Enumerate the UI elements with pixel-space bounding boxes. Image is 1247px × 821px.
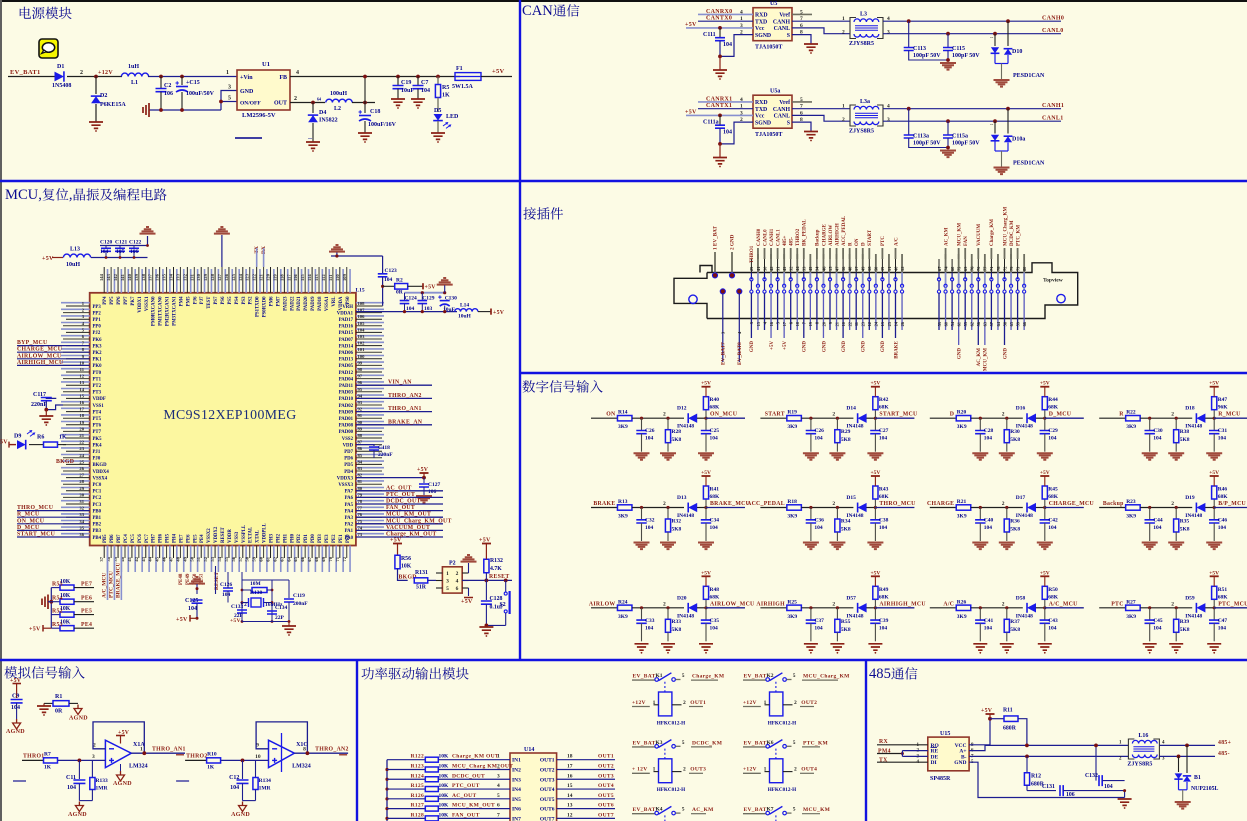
svg-text:485-: 485- <box>790 237 795 247</box>
svg-text:8: 8 <box>303 747 306 753</box>
P2 pin6 to +5V <box>468 588 470 596</box>
svg-text:Vcc: Vcc <box>755 26 765 32</box>
junction 3 <box>866 417 875 419</box>
power +5V R50 <box>1040 575 1049 577</box>
svg-text:PM4: PM4 <box>179 296 184 306</box>
svg-text:PB6: PB6 <box>110 534 115 543</box>
svg-text:LM2596-5V: LM2596-5V <box>242 112 276 119</box>
svg-text:1uH: 1uH <box>128 64 139 70</box>
svg-text:+12V: +12V <box>743 700 757 706</box>
wire 485- out <box>1159 755 1215 757</box>
svg-text:PAD16: PAD16 <box>339 325 354 330</box>
svg-text:85: 85 <box>358 453 363 458</box>
svg-text:104: 104 <box>1153 625 1162 631</box>
svg-text:VSS2: VSS2 <box>342 437 354 442</box>
svg-text:102: 102 <box>358 341 366 346</box>
svg-text:C43: C43 <box>1048 618 1058 624</box>
VRH filter: mound ground <box>329 245 345 252</box>
svg-text:D10: D10 <box>1012 49 1022 55</box>
capacitor C134 22P <box>267 611 277 614</box>
wire to diode <box>971 507 1023 509</box>
svg-text:U15: U15 <box>940 731 950 737</box>
+5V cap rail <box>405 292 445 294</box>
pin column 76/62 <box>971 254 973 273</box>
IC U15 SP485R <box>928 737 969 771</box>
svg-text:104: 104 <box>710 525 719 531</box>
junction C2 <box>159 75 163 79</box>
svg-text:PM7: PM7 <box>276 296 281 306</box>
svg-text:+12V: +12V <box>632 700 646 706</box>
svg-text:1: 1 <box>740 104 743 110</box>
diode D59 IN4148 <box>1196 603 1205 612</box>
svg-text:14: 14 <box>567 793 573 799</box>
svg-text:PAD19: PAD19 <box>311 296 316 311</box>
TVS D10a PESD1CAN <box>993 119 997 123</box>
svg-text:C29: C29 <box>1048 428 1058 434</box>
svg-text:68K: 68K <box>879 494 890 500</box>
switch S2 <box>505 580 507 592</box>
svg-text:25: 25 <box>79 459 84 464</box>
wire bus to resistor R127 <box>387 808 425 810</box>
svg-text:104: 104 <box>1048 525 1057 531</box>
capacitor C40 104 <box>979 508 981 520</box>
svg-text:79: 79 <box>358 492 363 497</box>
svg-text:R22: R22 <box>1126 410 1136 416</box>
svg-text:PS4: PS4 <box>235 296 240 305</box>
capacitor C111a 104 <box>719 115 721 125</box>
svg-text:220nF: 220nF <box>378 452 393 458</box>
MCU left pins 1-36 <box>66 305 90 307</box>
junction 3 <box>1205 507 1214 509</box>
svg-text:PB5: PB5 <box>103 534 108 543</box>
crystal Y2 16MHz <box>242 602 248 604</box>
svg-text:START: START <box>765 412 785 418</box>
svg-text:C32: C32 <box>645 518 655 524</box>
capacitor C28 104 <box>979 418 981 430</box>
svg-text:R124: R124 <box>411 773 424 779</box>
svg-text:AIRLOW: AIRLOW <box>589 601 616 607</box>
power +5V R41 <box>702 475 711 477</box>
svg-text:75: 75 <box>358 519 363 524</box>
svg-text:104: 104 <box>723 130 732 136</box>
wire to diode <box>1140 507 1192 509</box>
capacitor C26 104 <box>641 418 643 430</box>
svg-text:2: 2 <box>663 412 666 418</box>
pin 8 S to ground <box>792 122 811 131</box>
svg-text:CAN: CAN <box>522 3 553 19</box>
wire CANRX1 <box>698 101 753 103</box>
svg-text:PT5: PT5 <box>93 417 102 422</box>
svg-text:3: 3 <box>228 85 231 91</box>
capacitor C117 220nF <box>46 397 56 398</box>
svg-text:12: 12 <box>79 374 84 379</box>
svg-text:+5V: +5V <box>29 627 41 633</box>
resistor R39 5K8 <box>1175 608 1177 620</box>
tiny text mark <box>176 780 189 782</box>
resistor R35 5K8 <box>1175 508 1177 520</box>
svg-text:2: 2 <box>794 700 797 706</box>
svg-text:R11: R11 <box>1003 708 1013 714</box>
svg-text:2: 2 <box>740 117 743 123</box>
wire bus to resistor R126 <box>387 798 425 800</box>
pin column 39/13 <box>881 259 883 273</box>
svg-text:D20: D20 <box>677 595 687 601</box>
svg-text:HFKC012-H: HFKC012-H <box>657 787 686 793</box>
resistor R2 0R <box>383 285 395 287</box>
wire output CHARGE_MCU <box>1045 507 1084 509</box>
svg-text:6: 6 <box>800 110 803 116</box>
resistor R30 5K8 <box>1006 418 1008 430</box>
svg-text:PP6: PP6 <box>117 296 122 305</box>
svg-text:BKGD: BKGD <box>56 459 74 465</box>
svg-text:55: 55 <box>224 556 229 561</box>
svg-text:C42: C42 <box>1048 518 1058 524</box>
svg-text:26: 26 <box>79 466 84 471</box>
svg-text:C2: C2 <box>164 83 171 89</box>
svg-text:77: 77 <box>358 506 363 511</box>
svg-text:PC6: PC6 <box>138 534 143 543</box>
svg-text:R40: R40 <box>710 397 720 403</box>
wire TVS to ground <box>1001 151 1003 167</box>
svg-text:PC3: PC3 <box>93 503 102 508</box>
svg-text:+5V: +5V <box>1040 470 1050 476</box>
wire GND pin5 <box>969 762 1125 797</box>
svg-text:485+: 485+ <box>1218 740 1231 746</box>
svg-text:PS0: PS0 <box>346 296 351 305</box>
svg-text:R18: R18 <box>787 499 797 505</box>
power +5V R2 <box>408 285 423 287</box>
svg-text:PAD03: PAD03 <box>339 391 354 396</box>
wire to IN5 <box>439 798 511 800</box>
svg-text:104: 104 <box>1104 784 1113 790</box>
wire +5V to Vcc <box>686 27 753 29</box>
svg-text:R126: R126 <box>411 793 424 799</box>
diode D20 IN4148 <box>688 603 697 612</box>
wire ON/OFF GND loop <box>221 91 237 111</box>
svg-text:IN4: IN4 <box>512 787 521 793</box>
power +5V R40 <box>702 386 711 388</box>
junction 3 <box>1036 507 1045 509</box>
svg-text:EXTAL: EXTAL <box>249 527 254 543</box>
wire output B/P_MCU <box>1214 507 1247 509</box>
svg-text:7: 7 <box>800 16 803 22</box>
wire EV_BAT1 to D1 <box>8 76 56 78</box>
capacitor C132 104 <box>1095 745 1097 780</box>
svg-text:69: 69 <box>321 556 326 561</box>
svg-text:IN6: IN6 <box>512 807 521 813</box>
svg-text:OUT2: OUT2 <box>598 763 614 769</box>
capacitor C38 104 <box>874 508 876 520</box>
svg-text:4: 4 <box>740 9 743 15</box>
wire output THRO_AN2 <box>294 752 348 754</box>
svg-text:VSSX2: VSSX2 <box>207 528 212 543</box>
svg-text:117: 117 <box>286 274 291 281</box>
svg-text:97: 97 <box>358 374 363 379</box>
svg-text:PD5: PD5 <box>344 463 353 468</box>
pin column 69/55 <box>964 259 966 273</box>
power +5V R48 <box>702 575 711 577</box>
svg-text:104: 104 <box>1153 525 1162 531</box>
svg-text:10uF: 10uF <box>401 88 414 94</box>
svg-text:HFKC012-H: HFKC012-H <box>768 720 797 726</box>
svg-text:143: 143 <box>106 273 111 281</box>
svg-text:VDDA: VDDA <box>339 296 344 310</box>
svg-text:CHARGE_MCU: CHARGE_MCU <box>17 347 63 353</box>
svg-text:AIRLOW: AIRLOW <box>829 225 834 246</box>
svg-text:115: 115 <box>300 274 305 281</box>
svg-text:68K: 68K <box>1048 494 1059 500</box>
riser to ground mound <box>147 236 149 246</box>
svg-text:TXD: TXD <box>755 107 767 113</box>
svg-text:THRO2: THRO2 <box>796 228 801 246</box>
ground under C34 <box>698 543 714 550</box>
svg-text:R20: R20 <box>957 410 967 416</box>
junction C7 <box>416 75 420 79</box>
svg-text:L3: L3 <box>860 12 867 18</box>
pullup R43 68K <box>874 500 876 508</box>
wire input to R10 <box>185 759 206 761</box>
svg-text:PH1: PH1 <box>283 533 288 543</box>
svg-text:PTC_KM: PTC_KM <box>1016 225 1021 246</box>
svg-text:R50: R50 <box>1048 587 1058 593</box>
svg-text:141: 141 <box>120 273 125 281</box>
svg-text:+5V: +5V <box>1040 570 1050 576</box>
wire input <box>1099 607 1126 609</box>
svg-text:113: 113 <box>314 274 319 281</box>
svg-text:2: 2 <box>842 117 845 123</box>
capacitor C35 104 <box>705 608 707 620</box>
MCU right pins 108-73 <box>356 305 382 307</box>
svg-text:C34: C34 <box>710 518 720 524</box>
ground under D10 <box>994 80 1010 87</box>
svg-text:82: 82 <box>358 473 363 478</box>
svg-text:220nF: 220nF <box>31 402 47 408</box>
pin 3 choke out CANL <box>883 120 1061 122</box>
svg-text:PAD17: PAD17 <box>339 318 354 323</box>
junction <box>809 506 812 509</box>
svg-text:104: 104 <box>1218 625 1227 631</box>
resistor R122 10K <box>425 757 438 762</box>
driver IC U14 <box>510 753 557 821</box>
ground under R29 <box>829 453 845 460</box>
wire OUT5 <box>557 798 615 800</box>
svg-text:41: 41 <box>756 267 761 271</box>
wire to diode <box>801 607 853 609</box>
svg-text:12: 12 <box>567 812 573 818</box>
svg-text:71: 71 <box>335 556 340 561</box>
svg-text:PE5: PE5 <box>193 534 198 543</box>
svg-text:CANH0: CANH0 <box>757 228 762 246</box>
svg-text:PK1: PK1 <box>93 358 103 363</box>
ground under R35 <box>1168 543 1184 550</box>
svg-text:R125: R125 <box>411 783 424 789</box>
wire to diode <box>632 507 684 509</box>
capacitor C19 10uF <box>397 77 399 86</box>
pin 6 CANL wire <box>792 115 850 121</box>
ground under R28 <box>660 453 676 460</box>
svg-text:PB4: PB4 <box>93 536 102 541</box>
capacitor C29 104 <box>1044 418 1046 430</box>
junction C111b top <box>718 114 722 118</box>
junction 2 <box>836 506 839 509</box>
svg-text:111: 111 <box>328 274 333 281</box>
pin 3 choke out CANL <box>883 33 1061 35</box>
svg-text:104: 104 <box>879 436 888 442</box>
svg-text:PC0: PC0 <box>93 483 102 488</box>
capacitor C26 104 <box>810 418 812 430</box>
svg-text:58: 58 <box>245 556 250 561</box>
wire OUT7 <box>557 817 615 819</box>
svg-text:D_MCU: D_MCU <box>17 525 40 531</box>
capacitor C113 100pF <box>908 21 910 47</box>
wire output A/C_MCU <box>1045 607 1084 609</box>
svg-text:PD0: PD0 <box>311 534 316 543</box>
svg-text:104: 104 <box>421 88 430 94</box>
inductor L2 100uH <box>326 99 352 102</box>
pin column 68/54 <box>951 259 953 273</box>
svg-text:2: 2 <box>456 571 459 577</box>
svg-text:6: 6 <box>456 586 459 592</box>
svg-text:D_MCU: D_MCU <box>1049 412 1072 418</box>
svg-text:68K: 68K <box>710 494 721 500</box>
ground under C32 <box>634 543 650 550</box>
junction C111 top <box>718 26 722 30</box>
svg-text:5K8: 5K8 <box>841 437 851 443</box>
capacitor C30 104 <box>1149 418 1151 430</box>
svg-text:+5V: +5V <box>1040 381 1050 387</box>
svg-text:AIRHIGH_MCU: AIRHIGH_MCU <box>17 360 64 366</box>
svg-text:1K: 1K <box>59 435 67 441</box>
svg-text:68K: 68K <box>710 405 721 411</box>
svg-text:3: 3 <box>740 110 743 116</box>
power +5V reset <box>190 617 197 619</box>
svg-text:C129: C129 <box>422 295 434 301</box>
wire to + input <box>58 759 105 761</box>
svg-text:EV_BAT1: EV_BAT1 <box>10 69 41 76</box>
wire C111 to ground <box>719 144 721 158</box>
svg-text:R44: R44 <box>1048 397 1058 403</box>
svg-text:50: 50 <box>189 556 194 561</box>
svg-text:OUT1: OUT1 <box>598 754 614 760</box>
svg-text:121: 121 <box>259 273 264 281</box>
svg-text:IN4148: IN4148 <box>1016 424 1033 430</box>
svg-text:AIRHIGH: AIRHIGH <box>835 223 840 246</box>
pin column 40/14 <box>895 259 897 273</box>
svg-text:0R: 0R <box>55 709 63 715</box>
svg-text:Backup: Backup <box>1103 501 1124 507</box>
svg-text:PE2: PE2 <box>332 534 337 543</box>
svg-text:3: 3 <box>92 754 95 760</box>
svg-text:4: 4 <box>887 16 890 22</box>
svg-text:EV_BAT8: EV_BAT8 <box>737 342 743 365</box>
svg-text:CANL1: CANL1 <box>1042 116 1064 122</box>
svg-text:47: 47 <box>169 556 174 561</box>
svg-text:R47: R47 <box>1218 397 1228 403</box>
diode D12 IN4148 <box>688 414 697 423</box>
svg-text:104: 104 <box>1218 436 1227 442</box>
resistor R25 3K9 <box>787 605 802 610</box>
svg-text:104: 104 <box>645 436 654 442</box>
ground under C44 <box>1142 543 1158 550</box>
svg-text:ON_MCU: ON_MCU <box>710 412 738 418</box>
crystal network wires <box>241 572 243 622</box>
svg-text:THRO_AN2: THRO_AN2 <box>315 747 349 753</box>
svg-text:START_MCU: START_MCU <box>17 532 56 538</box>
resistor R33 5K8 <box>667 608 669 620</box>
wire SGND loop <box>720 35 753 57</box>
resistor R21 3K9 <box>956 505 971 510</box>
svg-text:42: 42 <box>769 267 774 271</box>
svg-text:R7: R7 <box>44 752 51 758</box>
ground under C19 <box>391 99 405 105</box>
svg-text:C134: C134 <box>275 605 287 611</box>
capacitor C44 104 <box>1149 508 1151 520</box>
svg-text:0R: 0R <box>396 290 404 296</box>
svg-text:129: 129 <box>203 273 208 281</box>
diode D57 IN4148 <box>858 603 867 612</box>
svg-text:OUT7: OUT7 <box>540 816 555 821</box>
capacitor C34 104 <box>705 508 707 520</box>
wire OUT6 <box>557 808 615 810</box>
ground under C33 <box>635 644 649 650</box>
svg-text:5K8: 5K8 <box>1010 437 1020 443</box>
wire RESET net <box>462 579 512 581</box>
svg-text:C121: C121 <box>115 240 127 246</box>
svg-text:C26: C26 <box>814 428 824 434</box>
switch contact K1 <box>655 678 659 682</box>
svg-text:R23: R23 <box>1126 499 1136 505</box>
svg-text:27: 27 <box>79 473 84 478</box>
svg-text:37: 37 <box>99 556 104 561</box>
svg-text:AC_KM: AC_KM <box>977 348 982 367</box>
svg-text:PD3: PD3 <box>318 534 323 543</box>
svg-text:66: 66 <box>300 556 305 561</box>
svg-text:2: 2 <box>663 601 666 607</box>
svg-text:IN5822: IN5822 <box>319 118 338 124</box>
svg-text:ACC_PEDAL: ACC_PEDAL <box>842 215 847 246</box>
diode D18 IN4148 <box>1196 414 1205 423</box>
svg-text:B1: B1 <box>1194 775 1201 781</box>
svg-text:LM324: LM324 <box>292 764 311 770</box>
capacitor C25 104 <box>705 418 707 430</box>
svg-text:R12: R12 <box>1031 774 1041 780</box>
svg-text:ZJYS8R5: ZJYS8R5 <box>849 41 874 47</box>
svg-text:VDDPLL: VDDPLL <box>263 523 268 543</box>
svg-text:104: 104 <box>645 525 654 531</box>
svg-text:C132: C132 <box>1085 773 1098 779</box>
ground under C38 <box>867 543 883 550</box>
svg-text:ACC_PEDAL: ACC_PEDAL <box>747 501 785 507</box>
svg-text:PAD04: PAD04 <box>339 377 354 382</box>
svg-text:11: 11 <box>80 367 85 372</box>
svg-text:105: 105 <box>358 321 366 326</box>
resistor R126 10K <box>425 796 438 801</box>
svg-text:123: 123 <box>245 273 250 281</box>
svg-text:MCU_Charg KM_OUT: MCU_Charg KM_OUT <box>452 763 513 769</box>
svg-text:5: 5 <box>800 9 803 15</box>
svg-text:17: 17 <box>79 407 84 412</box>
svg-text:104: 104 <box>710 625 719 631</box>
wire to diode <box>632 607 684 609</box>
junction C15 <box>180 75 184 79</box>
svg-text:10M: 10M <box>250 581 262 587</box>
svg-text:76: 76 <box>358 512 363 517</box>
power +5V R47 <box>1210 386 1219 388</box>
resistor R28 5K8 <box>667 418 669 430</box>
svg-text:68: 68 <box>314 556 319 561</box>
wire to + input <box>221 759 268 761</box>
svg-text:GND: GND <box>822 341 827 353</box>
